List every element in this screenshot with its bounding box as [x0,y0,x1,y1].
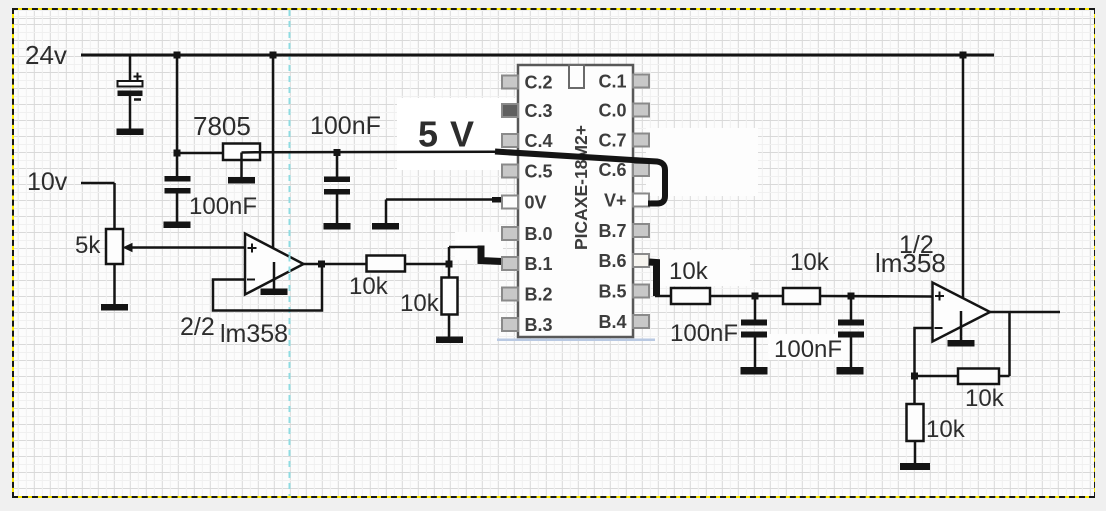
svg-text:100nF: 100nF [670,320,738,347]
svg-text:10k: 10k [400,290,440,317]
svg-text:10k: 10k [669,258,709,285]
svg-text:C.6: C.6 [598,160,626,180]
svg-text:B.0: B.0 [525,224,553,244]
svg-text:B.1: B.1 [525,254,553,274]
svg-text:100nF: 100nF [310,112,381,140]
svg-text:B.4: B.4 [598,312,626,332]
svg-text:C.1: C.1 [598,72,626,92]
svg-text:C.3: C.3 [525,101,553,121]
svg-text:lm358: lm358 [220,320,288,348]
svg-text:C.2: C.2 [525,73,553,93]
svg-text:C.5: C.5 [525,162,553,182]
svg-text:24v: 24v [25,40,67,70]
svg-text:100nF: 100nF [189,193,257,220]
svg-text:B.7: B.7 [598,221,626,241]
svg-text:5 V: 5 V [418,114,475,155]
svg-text:B.2: B.2 [525,285,553,305]
svg-text:7805: 7805 [193,111,251,141]
svg-text:10v: 10v [27,168,68,196]
svg-text:0V: 0V [525,193,547,213]
svg-text:10k: 10k [790,249,830,276]
svg-text:2/2: 2/2 [180,313,215,341]
svg-text:PICAXE-18M2+: PICAXE-18M2+ [571,125,591,250]
svg-text:B.3: B.3 [525,315,553,335]
svg-text:C.7: C.7 [598,131,626,151]
svg-text:B.6: B.6 [598,251,626,271]
svg-text:C.4: C.4 [525,131,553,151]
svg-text:10k: 10k [965,385,1005,412]
svg-text:lm358: lm358 [875,248,946,278]
svg-text:C.0: C.0 [598,101,626,121]
svg-text:V+: V+ [604,191,627,211]
svg-text:10k: 10k [926,416,966,443]
svg-text:100nF: 100nF [774,336,842,363]
svg-text:B.5: B.5 [598,282,626,302]
svg-text:10k: 10k [349,273,389,300]
svg-text:5k: 5k [75,232,101,259]
